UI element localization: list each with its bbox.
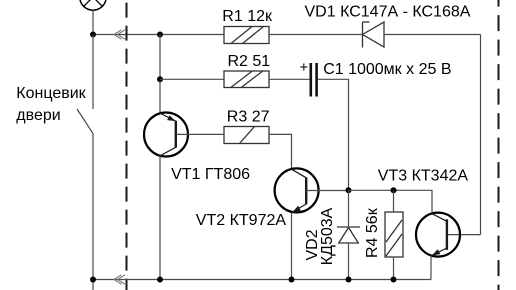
wire switch lower — [92, 134, 94, 290]
svg-text:R4 56к: R4 56к — [364, 207, 381, 258]
node at R-branch top — [157, 32, 163, 38]
transistor VT3 — [416, 213, 460, 257]
wire left drop to switch — [92, 35, 94, 110]
svg-text:C1 1000мк х 25 В: C1 1000мк х 25 В — [323, 61, 451, 78]
wire C1 to corner and down — [318, 79, 349, 190]
wire VT1 base to R3 — [176, 133, 224, 135]
svg-text:VT3 КТ342А: VT3 КТ342А — [378, 167, 469, 184]
node at lamp junction — [90, 32, 96, 38]
connector mark bottom — [114, 275, 125, 284]
diode VD1 zener — [363, 22, 385, 48]
wire top rail left — [93, 34, 224, 36]
node R4 top junction — [391, 187, 397, 193]
capacitor C1 — [311, 63, 317, 97]
node VD2 bottom — [346, 277, 352, 283]
node R4 bottom — [391, 277, 397, 283]
svg-text:R2 51: R2 51 — [228, 53, 271, 70]
wire bottom rail — [93, 279, 431, 281]
wire VT3 emitter drop — [430, 256, 432, 280]
node at R2 branch — [157, 76, 163, 82]
svg-text:VT2 КТ972А: VT2 КТ972А — [196, 212, 287, 229]
transistor VT2 — [275, 168, 319, 212]
wire right vertical drop — [480, 35, 482, 235]
wire R3 to VT2 collector — [269, 134, 292, 169]
svg-text:R1 12к: R1 12к — [222, 8, 273, 25]
wire lamp stem — [92, 10, 94, 34]
connector mark top — [114, 30, 125, 39]
resistor R3 — [224, 127, 269, 144]
wire R2 to C1 — [269, 78, 310, 80]
polarity plus C1 — [300, 64, 307, 71]
boundary dashed line right — [498, 0, 500, 290]
wire R4 bottom — [393, 257, 395, 280]
svg-text:VD1 КС147А - КС168А: VD1 КС147А - КС168А — [305, 3, 471, 20]
wire VD2 to bottom rail — [348, 243, 350, 280]
node bottom left — [90, 277, 96, 283]
transistor VT1 — [144, 113, 188, 157]
node VT1 collector bottom — [157, 277, 163, 283]
wire R2 branch — [160, 78, 224, 80]
wire VT1 collector drop — [159, 156, 161, 280]
wire R4 top — [393, 190, 395, 212]
lamp HL — [80, 0, 106, 10]
svg-text:VT1 ГТ806: VT1 ГТ806 — [171, 166, 250, 183]
wire VT2 emitter drop — [291, 213, 293, 280]
boundary dashed line left — [126, 0, 128, 290]
svg-text:двери: двери — [16, 107, 60, 124]
diode VD2 — [337, 227, 360, 243]
node VT2 base junction — [346, 187, 352, 193]
node VT2 emitter bottom — [289, 277, 295, 283]
resistor R4 — [385, 212, 403, 257]
svg-text:Концевик: Концевик — [16, 85, 86, 102]
svg-text:КД503А: КД503А — [319, 207, 336, 265]
wire VT2 base lead — [306, 190, 348, 192]
resistor R2 — [224, 71, 269, 88]
svg-text:R3 27: R3 27 — [227, 108, 270, 125]
wire VT3 base lead — [447, 234, 481, 236]
wire VD2 down — [348, 190, 350, 226]
wire mid rail to VT3 — [349, 190, 433, 213]
wire branch drop to VT1 — [159, 35, 161, 114]
wire R1 to VD1 — [269, 34, 363, 36]
wire VD1 to right corner — [384, 34, 481, 36]
resistor R1 — [224, 27, 269, 44]
switch blade (Концевик двери) — [77, 109, 93, 134]
